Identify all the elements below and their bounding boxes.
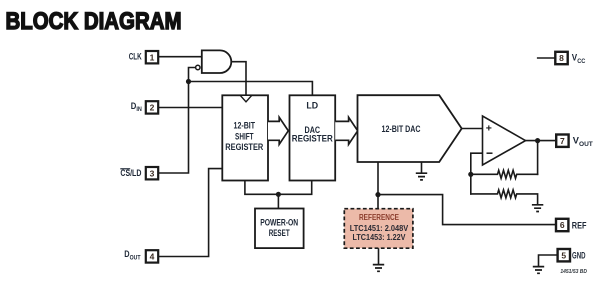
svg-text:CS/LD: CS/LD: [120, 168, 141, 178]
resistor R1 feedback: [471, 170, 538, 178]
svg-text:LD: LD: [306, 101, 318, 111]
svg-text:REF: REF: [572, 220, 587, 230]
wire reference to ground: [378, 248, 380, 264]
wire NAND output to shift register clock: [232, 62, 246, 96]
svg-text:LTC1453: 1.22V: LTC1453: 1.22V: [353, 232, 406, 242]
wire CLK pin1 to NAND input: [159, 56, 202, 58]
ground below reference: [373, 265, 384, 272]
svg-text:1: 1: [150, 52, 155, 62]
svg-text:RESET: RESET: [269, 228, 290, 238]
svg-text:7: 7: [560, 136, 565, 146]
svg-text:3: 3: [150, 168, 155, 178]
svg-text:POWER-ON: POWER-ON: [260, 217, 298, 227]
pin 5 box: [558, 249, 570, 261]
pin 7 box: [556, 135, 568, 147]
pin 6 box: [556, 219, 568, 231]
svg-text:CLK: CLK: [129, 52, 142, 62]
svg-text:12-BIT DAC: 12-BIT DAC: [382, 124, 422, 134]
wire VCC pin8 stub: [538, 57, 555, 59]
svg-text:5: 5: [561, 250, 566, 260]
NAND gate U1: [202, 50, 232, 73]
wire registers to power-on reset: [245, 181, 312, 195]
wire op-amp output to VOUT pin7: [526, 140, 557, 142]
wire output down to R1: [537, 141, 539, 175]
ground below DAC: [416, 173, 427, 180]
svg-text:REGISTER: REGISTER: [292, 134, 334, 144]
svg-text:GND: GND: [572, 250, 586, 260]
wire CS/LD pin3 up to NAND bubble: [159, 68, 196, 174]
node reference dot: [375, 192, 380, 197]
clock wedge on shift register: [240, 95, 252, 102]
12-bit shift register block: [222, 95, 268, 180]
svg-text:1451/53 BD: 1451/53 BD: [560, 269, 587, 275]
svg-text:REFERENCE: REFERENCE: [359, 212, 399, 222]
svg-text:BLOCK DIAGRAM: BLOCK DIAGRAM: [6, 8, 182, 35]
svg-text:4: 4: [150, 252, 155, 262]
svg-text:SHIFT: SHIFT: [235, 131, 254, 141]
node output dot: [535, 138, 540, 143]
node feedback dot: [468, 172, 473, 177]
svg-text:12-BIT: 12-BIT: [234, 121, 256, 131]
power-on reset block: [255, 209, 304, 249]
bus arrow shift register to DAC register: [268, 117, 288, 144]
svg-text:2: 2: [150, 103, 155, 113]
wire shift register to DOUT pin4: [159, 169, 223, 257]
ground below R2: [532, 205, 543, 212]
wire node A to DAC register LD: [189, 82, 313, 96]
svg-text:+: +: [486, 122, 492, 134]
pin 8 box: [555, 52, 567, 64]
wire GND pin5 to ground: [539, 255, 558, 266]
resistor R2 to ground: [471, 190, 538, 205]
bus arrow DAC register to DAC: [335, 117, 358, 144]
svg-text:REGISTER: REGISTER: [225, 142, 264, 152]
svg-text:6: 6: [560, 220, 565, 230]
pin 2 box: [146, 101, 158, 113]
wire DAC to reference: [377, 162, 379, 209]
wire DAC ground stub: [421, 162, 423, 173]
reference block: [344, 209, 413, 249]
12-bit DAC block: [358, 95, 462, 162]
op-amp U2: [483, 116, 526, 165]
wire reference node to REF pin6: [378, 195, 556, 225]
DAC register block: [290, 95, 336, 180]
NAND input bubble: [196, 65, 200, 69]
pin 3 box: [146, 167, 158, 179]
wire DAC output to op-amp: [462, 128, 483, 130]
wire junction to POR: [277, 194, 279, 208]
node POR dot: [276, 192, 281, 197]
svg-text:8: 8: [559, 53, 564, 63]
pin 1 box: [146, 51, 158, 63]
ground at GND pin5: [533, 267, 544, 274]
wire DIN pin2 to shift register: [159, 107, 223, 109]
wire op-amp inverting input feedback: [471, 153, 483, 194]
pin 4 box: [146, 250, 158, 262]
node A dot: [186, 79, 191, 84]
